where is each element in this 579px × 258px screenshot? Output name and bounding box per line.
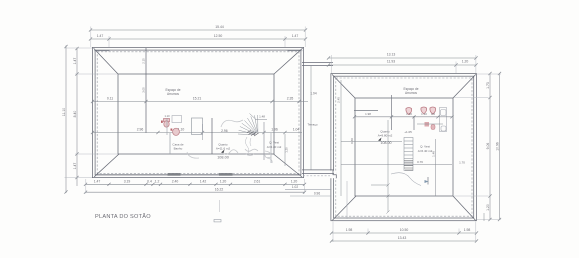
svg-text:13.13: 13.13 bbox=[387, 52, 396, 56]
left room hip diagonal top-right bbox=[274, 48, 303, 74]
interior vertical dim chain x=388 bbox=[371, 120, 390, 214]
svg-text:1.98: 1.98 bbox=[464, 228, 471, 232]
extension lines left room top bbox=[91, 27, 305, 48]
svg-text:11.10: 11.10 bbox=[62, 108, 66, 116]
left room hip diagonal bottom-left bbox=[94, 154, 119, 177]
interior wall x=212 bbox=[211, 118, 213, 154]
bathroom row walls right bbox=[354, 95, 414, 130]
svg-text:10.96: 10.96 bbox=[495, 142, 499, 151]
svg-text:1.20: 1.20 bbox=[462, 59, 469, 63]
toilets right room (pink) bbox=[406, 107, 436, 115]
svg-text:1.48: 1.48 bbox=[431, 151, 435, 157]
svg-text:0.11: 0.11 bbox=[107, 97, 113, 101]
dim left-room top segments bbox=[89, 37, 307, 40]
svg-text:0.4: 0.4 bbox=[147, 180, 152, 184]
right room outer wall bbox=[331, 74, 477, 221]
svg-text:1.96: 1.96 bbox=[271, 128, 278, 132]
left room outer wall bbox=[92, 47, 303, 177]
svg-text:0.60: 0.60 bbox=[350, 138, 354, 144]
svg-text:108.00: 108.00 bbox=[217, 155, 229, 159]
svg-text:1.04: 1.04 bbox=[293, 128, 300, 132]
interior wall x=271 bbox=[270, 133, 272, 163]
dim interior upper 15.21 bbox=[91, 100, 308, 103]
extension lines left room bottom bbox=[86, 179, 305, 194]
stair winder fan left room bbox=[238, 115, 258, 135]
svg-text:1.47: 1.47 bbox=[97, 34, 104, 38]
ladder dark scribble bbox=[404, 161, 413, 171]
dim interior mid bbox=[91, 131, 302, 134]
short line y=124 right room bbox=[417, 123, 443, 125]
left interior dim column right room bbox=[340, 80, 342, 196]
interior dim line y=164.5 right room bbox=[341, 164, 452, 166]
svg-text:1.47: 1.47 bbox=[94, 180, 101, 184]
svg-text:1.73: 1.73 bbox=[486, 82, 490, 89]
connector dashed line bottom bbox=[303, 175, 330, 177]
svg-text:8.40: 8.40 bbox=[73, 111, 77, 118]
dim left-room top overall 15.44 bbox=[89, 28, 307, 31]
interior line y=141.3 right room bbox=[341, 140, 402, 142]
interior vertical dim x=347 bbox=[346, 181, 348, 219]
svg-text:2.35: 2.35 bbox=[287, 97, 294, 101]
svg-text:Q. Vest: Q. Vest bbox=[269, 141, 279, 145]
sink boxes right room bbox=[440, 108, 447, 132]
svg-text:3.05: 3.05 bbox=[142, 87, 146, 93]
svg-text:1.10: 1.10 bbox=[421, 112, 427, 116]
svg-text:1.02: 1.02 bbox=[292, 185, 298, 189]
extension lines left room left bbox=[65, 48, 119, 178]
vent blob left bbox=[168, 173, 181, 176]
svg-text:A=11.6 m2: A=11.6 m2 bbox=[216, 147, 231, 151]
left room attic knee-wall rectangle bbox=[118, 74, 274, 154]
bathroom wall x=167 bbox=[166, 118, 168, 135]
level marker arrow right bbox=[378, 138, 382, 142]
door opening in right room left wall bbox=[330, 171, 336, 179]
right room hip diagonal top-right bbox=[453, 74, 476, 98]
right room attic knee-wall rectangle bbox=[355, 98, 453, 196]
svg-text:Q. Vest: Q. Vest bbox=[420, 145, 430, 149]
stair number scribble bbox=[247, 131, 259, 137]
svg-text:0.76: 0.76 bbox=[417, 160, 423, 164]
small right-side step dim bbox=[483, 213, 485, 221]
right room hip diagonal top-left bbox=[332, 74, 355, 98]
ladder stair right room bbox=[404, 138, 413, 171]
dim right-room right overall 10.96 bbox=[498, 72, 501, 221]
small dim 1.48 left stair bbox=[256, 119, 267, 121]
left room hip diagonal top-left bbox=[94, 48, 118, 74]
svg-text:1.2: 1.2 bbox=[155, 180, 160, 184]
svg-text:Terraço: Terraço bbox=[307, 123, 317, 127]
svg-text:11.93: 11.93 bbox=[387, 59, 395, 63]
svg-text:Arrumos: Arrumos bbox=[167, 92, 179, 96]
left room eave dashed line bbox=[97, 52, 299, 174]
svg-text:1.48: 1.48 bbox=[259, 114, 265, 118]
extension lines right room right bbox=[454, 74, 501, 220]
interior wall x=146 bbox=[145, 48, 147, 133]
svg-text:1.20: 1.20 bbox=[486, 204, 490, 211]
svg-text:1.47: 1.47 bbox=[73, 58, 77, 65]
small blue arrow mark bbox=[425, 180, 429, 183]
svg-text:2.40: 2.40 bbox=[172, 180, 179, 184]
svg-text:1.10: 1.10 bbox=[164, 114, 170, 118]
wall below chimney bbox=[201, 124, 203, 140]
connector walls between rooms bottom bbox=[302, 170, 336, 178]
interior wall x=264 bbox=[263, 122, 265, 160]
connector walls between rooms top bbox=[302, 62, 333, 65]
svg-text:1.42: 1.42 bbox=[200, 180, 207, 184]
level marker arrow left bbox=[221, 150, 225, 154]
svg-text:1.94: 1.94 bbox=[310, 92, 316, 96]
svg-text:2.96: 2.96 bbox=[221, 129, 228, 133]
left room hip diagonal bottom-right bbox=[274, 154, 303, 177]
bathroom tiny red marks bbox=[161, 114, 172, 131]
svg-text:1.47: 1.47 bbox=[292, 34, 299, 38]
dim left-room left segments bbox=[75, 47, 78, 186]
right room eave dashed line bbox=[336, 78, 472, 216]
svg-text:2.45: 2.45 bbox=[337, 97, 341, 103]
right room hip diagonal bottom-left bbox=[332, 196, 356, 220]
dim right-room top segments bbox=[327, 63, 478, 66]
fold mark bbox=[219, 200, 221, 212]
svg-text:3.19: 3.19 bbox=[124, 180, 131, 184]
svg-text:2.96: 2.96 bbox=[137, 128, 144, 132]
dim right-room bottom overall 13.43 bbox=[330, 239, 478, 242]
left room inner bottom ledge line bbox=[96, 174, 300, 176]
stair lower steps bbox=[246, 137, 252, 153]
left room eave corner steps bbox=[94, 50, 303, 52]
extension lines right room top bbox=[332, 55, 476, 73]
small dim column x=285 bbox=[284, 134, 286, 166]
svg-text:Banho: Banho bbox=[174, 147, 183, 151]
dim left-room bottom overall 16.22 bbox=[84, 191, 306, 194]
svg-text:Arrumos: Arrumos bbox=[405, 91, 417, 95]
interior vertical dim right room bbox=[435, 139, 437, 196]
svg-text:1.98: 1.98 bbox=[365, 112, 371, 116]
svg-text:1.10: 1.10 bbox=[406, 112, 412, 116]
svg-text:1.20: 1.20 bbox=[220, 180, 227, 184]
svg-text:1.47: 1.47 bbox=[73, 163, 77, 170]
svg-text:2.15: 2.15 bbox=[142, 58, 146, 64]
bathroom fixtures left (pink) bbox=[164, 119, 180, 136]
right room hip diagonal bottom-right bbox=[453, 196, 476, 220]
svg-text:1.20: 1.20 bbox=[284, 147, 288, 153]
svg-text:9.06: 9.06 bbox=[486, 143, 490, 150]
svg-text:+1.05: +1.05 bbox=[404, 130, 412, 134]
dim right-room right segments bbox=[488, 72, 491, 221]
dim right-room top overall 13.13 bbox=[327, 56, 478, 59]
svg-text:2.61: 2.61 bbox=[254, 180, 261, 184]
vent blob right bbox=[219, 173, 233, 176]
svg-text:1.98: 1.98 bbox=[346, 228, 353, 232]
svg-text:13.43: 13.43 bbox=[398, 236, 407, 240]
svg-text:1.20: 1.20 bbox=[291, 180, 298, 184]
pink squares right room bbox=[425, 122, 430, 127]
svg-text:A=6.40 m2: A=6.40 m2 bbox=[267, 145, 282, 149]
bathroom wall x=170 lower bbox=[169, 133, 171, 154]
svg-text:15.21: 15.21 bbox=[193, 97, 202, 101]
svg-text:10.50: 10.50 bbox=[400, 228, 409, 232]
bathroom sink box left bbox=[172, 116, 182, 123]
connector vertical dim line bbox=[310, 66, 312, 170]
svg-text:A=9.80 m2: A=9.80 m2 bbox=[378, 134, 393, 138]
dim left-room bottom segments bbox=[84, 183, 306, 186]
svg-text:15.44: 15.44 bbox=[215, 25, 224, 29]
connector bottom dim line piece bbox=[285, 189, 332, 196]
dim right-room bottom segments bbox=[330, 231, 478, 234]
extension lines right room bottom bbox=[333, 222, 476, 243]
chimney rectangle bbox=[192, 118, 203, 135]
svg-text:1.70: 1.70 bbox=[459, 160, 465, 164]
svg-text:0.96: 0.96 bbox=[314, 191, 320, 195]
svg-text:12.50: 12.50 bbox=[214, 34, 223, 38]
faint arc shapes left room bbox=[187, 120, 272, 163]
dim right-room interior row bbox=[353, 115, 454, 118]
stair door swing arc right room bbox=[391, 173, 421, 186]
svg-text:16.22: 16.22 bbox=[215, 187, 224, 191]
svg-text:PLANTA DO SOTÃO: PLANTA DO SOTÃO bbox=[95, 213, 151, 220]
svg-text:0.6: 0.6 bbox=[431, 112, 435, 116]
dim left-room left overall 11.10 bbox=[64, 45, 67, 194]
